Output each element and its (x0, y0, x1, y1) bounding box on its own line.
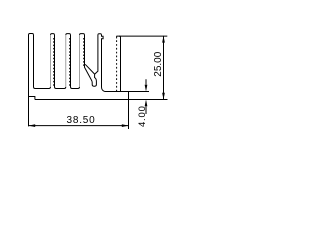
dimension 4.00 upper arrow shaft (145, 79, 147, 85)
fin F2 left face (light serrated) (50, 35, 52, 87)
flange top line + 4.00 upper extension (105, 91, 149, 93)
fin F5 top (98, 34, 102, 35)
svg-text:4.00: 4.00 (137, 105, 148, 127)
right wall F6 dashed left face (serrated) (116, 40, 118, 91)
wire left wall + 38.50 left extension line (28, 35, 30, 127)
fin F4 left face (light serrated) (79, 35, 81, 87)
fin F3 top (66, 34, 71, 35)
fin F5 right face with clip notch and base flare (102, 35, 105, 92)
arrow 38.50 left (29, 124, 36, 127)
fin F1 right face, channel 1 floor (34, 35, 51, 89)
fin F2 top (51, 34, 55, 35)
serration dashed line fin F4 (inner right) (83, 38, 85, 66)
right wall F6 top + 25.00 top extension line (116, 35, 167, 37)
right wall F6 left face top stub (116, 36, 118, 38)
arrow 4.00 upper (points down to flange top) (145, 85, 148, 92)
fin F4 right face + slanted slot lower wall + mini channel + fin F5 left face (85, 35, 98, 86)
slanted slot upper wall D2 (85, 64, 94, 74)
serration dashed line fin F2 (inner right) (53, 38, 55, 87)
fin F3 left face (light serrated) (65, 35, 67, 87)
dimension line 25.00 (163, 36, 165, 100)
svg-text:25.00: 25.00 (153, 51, 164, 76)
arrow 25.00 top (162, 36, 165, 43)
arrow 25.00 bottom (162, 93, 165, 100)
fin F2 right face, channel 2 floor (55, 35, 66, 89)
arrow 4.00 lower (points up to bottom edge) (145, 100, 148, 107)
dimension 4.00 lower arrow shaft (145, 106, 147, 114)
bottom edge + right extension (35, 99, 168, 101)
fin F4 top (80, 34, 85, 35)
dimension line 38.50 (29, 125, 129, 127)
serration dashed line fin F3 (inner right) (69, 38, 71, 87)
arrow 38.50 right (122, 124, 129, 127)
right wall F6 right face (119, 36, 120, 91)
fin F1 top (29, 34, 34, 35)
svg-text:38.50: 38.50 (66, 115, 95, 126)
flange right edge + 38.50 right extension line (128, 92, 130, 130)
bottom-left notch (29, 97, 35, 100)
fin F3 right face, channel 3 floor (71, 35, 80, 89)
